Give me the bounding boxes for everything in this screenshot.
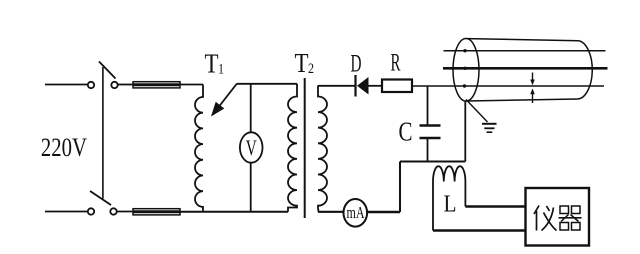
svg-text:1: 1 — [218, 62, 224, 78]
svg-text:T: T — [205, 49, 219, 79]
svg-text:C: C — [399, 117, 413, 147]
svg-text:V: V — [246, 135, 257, 160]
svg-text:2: 2 — [308, 61, 314, 77]
svg-text:T: T — [295, 48, 309, 78]
svg-text:R: R — [391, 50, 401, 77]
svg-text:mA: mA — [347, 203, 366, 222]
svg-text:D: D — [351, 51, 362, 78]
svg-text:220V: 220V — [41, 133, 87, 162]
svg-text:L: L — [444, 192, 457, 218]
